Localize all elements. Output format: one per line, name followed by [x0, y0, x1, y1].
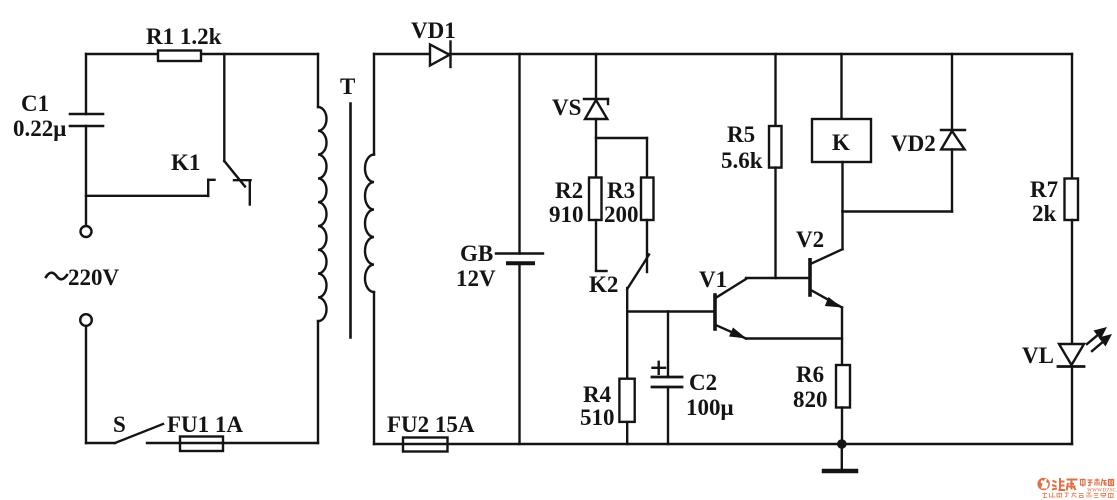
resistor R2: [589, 178, 602, 221]
svg-text:FU1 1A: FU1 1A: [167, 412, 243, 437]
svg-text:R4: R4: [583, 382, 612, 407]
wire R3 top lead: [646, 138, 648, 178]
svg-text:FU2 15A: FU2 15A: [387, 412, 475, 437]
transformer T primary winding: [318, 107, 327, 321]
ground: [824, 444, 856, 471]
capacitor C2 polarity plus: [653, 362, 666, 374]
transistor V2: [810, 249, 843, 307]
diode VD2: [941, 130, 965, 149]
wire right edge top: [1071, 54, 1073, 179]
fuse FU2: [403, 438, 448, 452]
svg-text:GB: GB: [460, 241, 493, 266]
wire secondary top lead: [373, 54, 375, 155]
wire R5 top lead: [774, 54, 776, 126]
svg-text:R2: R2: [555, 178, 583, 203]
transformer T core: [349, 104, 352, 338]
relay contact K2 blade: [627, 255, 649, 290]
resistor R7: [1065, 179, 1079, 221]
wire base node: [627, 310, 715, 312]
svg-text:VD1: VD1: [411, 18, 456, 43]
wire VS top lead: [595, 54, 597, 99]
resistor R6: [836, 365, 850, 408]
svg-text:VD2: VD2: [891, 131, 936, 156]
capacitor C1: [70, 114, 103, 126]
svg-text:VL: VL: [1022, 343, 1054, 368]
battery GB: [496, 254, 543, 264]
LED VL arrows: [1087, 327, 1112, 351]
junction emitter/ground node: [837, 439, 847, 449]
wire secondary bottom lead: [373, 292, 375, 444]
wire V1 collector to V2 base: [746, 277, 810, 279]
watermark logo: [1037, 478, 1117, 498]
wire bottom bus right: [374, 443, 1072, 445]
wire AC bottom lead: [85, 326, 87, 443]
svg-text:WWW.DZSC.COM: WWW.DZSC.COM: [1087, 489, 1117, 494]
wire right edge middle: [1071, 220, 1073, 344]
wire V2 emitter to R6: [841, 308, 843, 366]
svg-text:R3: R3: [607, 178, 635, 203]
wire right edge bottom: [1071, 367, 1073, 445]
svg-text:2k: 2k: [1032, 201, 1057, 226]
wire V2 collector up: [841, 212, 843, 250]
svg-text:12V: 12V: [456, 266, 496, 291]
wire V1 emitter rail: [746, 337, 842, 339]
wire VD2 bottom lead: [951, 149, 953, 211]
wire R6 bottom lead: [841, 408, 843, 445]
svg-text:K2: K2: [589, 272, 618, 297]
relay coil K: [812, 119, 871, 162]
wire C2 bottom lead: [667, 387, 669, 444]
svg-text:T: T: [340, 74, 355, 99]
wire VS to R2: [595, 119, 597, 178]
svg-text:V2: V2: [796, 227, 824, 252]
contact K2 fixed tick: [596, 270, 607, 272]
svg-text:0.22μ: 0.22μ: [13, 116, 66, 141]
wire top-left bus: [86, 53, 318, 55]
transistor V1: [715, 279, 747, 339]
terminal AC bottom: [80, 314, 92, 326]
wire to switch S: [86, 442, 115, 444]
wire K2 to base node: [626, 288, 628, 312]
wire C2 top lead: [667, 312, 669, 378]
wire GB top lead: [518, 54, 520, 254]
wire K to VD2: [843, 210, 953, 212]
svg-text:R5: R5: [727, 122, 755, 147]
wire R5 bottom lead: [774, 168, 776, 278]
wire R4 bottom lead: [626, 422, 628, 444]
svg-text:510: 510: [580, 405, 615, 430]
svg-text:820: 820: [793, 387, 828, 412]
switch S blade: [115, 424, 163, 443]
svg-text:V1: V1: [699, 267, 727, 292]
diode VD1: [430, 42, 451, 68]
svg-text:VS: VS: [552, 95, 581, 120]
resistor R5: [769, 126, 782, 168]
wire K bottom lead: [841, 162, 843, 212]
wire R3 bottom lead: [646, 220, 648, 272]
svg-text:C1: C1: [21, 91, 49, 116]
svg-text:R6: R6: [796, 362, 824, 387]
wire C1 bottom lead: [85, 126, 87, 226]
wire R2 bottom lead: [595, 220, 597, 271]
svg-text:R1 1.2k: R1 1.2k: [146, 24, 222, 49]
transformer T secondary winding: [365, 155, 374, 293]
resistor R1: [158, 51, 201, 62]
wire primary top lead: [317, 54, 319, 107]
capacitor C2: [652, 377, 682, 387]
svg-text:K1: K1: [171, 150, 200, 175]
label ~220V: [46, 265, 120, 290]
svg-text:100μ: 100μ: [686, 395, 734, 420]
svg-text:220V: 220V: [68, 265, 120, 290]
svg-text:200: 200: [604, 202, 639, 227]
relay contact K1: [208, 54, 250, 205]
resistor R4: [619, 379, 634, 422]
wire top bus right: [374, 53, 1072, 55]
wire K top lead: [840, 54, 842, 119]
wire K1 contact to C1: [86, 195, 208, 197]
wire R4 top lead: [626, 312, 628, 379]
LED VL: [1058, 344, 1084, 367]
svg-text:S: S: [113, 412, 126, 437]
resistor R3: [641, 178, 654, 221]
wire primary bottom lead: [317, 321, 319, 443]
svg-text:C2: C2: [689, 370, 717, 395]
fuse FU1: [180, 437, 223, 452]
svg-text:R7: R7: [1030, 177, 1058, 202]
svg-text:910: 910: [549, 202, 584, 227]
wire C1 top lead: [85, 54, 87, 114]
wire GB bottom lead: [518, 263, 520, 444]
svg-text:K: K: [832, 130, 850, 155]
svg-text:5.6k: 5.6k: [721, 148, 763, 173]
zener diode VS: [584, 99, 608, 119]
wire VD2 top lead: [951, 54, 953, 130]
wire jog VS to R3: [596, 137, 647, 139]
terminal AC top: [81, 226, 92, 237]
wire bottom-left bus: [147, 442, 318, 444]
